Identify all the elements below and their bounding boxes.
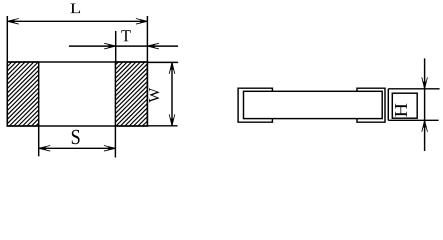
label H [395,104,407,117]
arrow T right (points left) [147,43,159,49]
left termination hatch lines [7,62,38,126]
arrow W bottom (points down) [169,114,175,126]
arrow L right [136,19,148,25]
dimension S: extension line left [38,126,40,156]
dimension S: extension line right [114,126,116,158]
dimension L: extension line left [6,16,8,62]
chip body outline (side) [244,91,383,118]
dimension H: dimension line [424,58,426,151]
dimension W: bottom extension line [147,125,177,127]
dimension L: dimension line [7,20,147,22]
dimension T: dimension line [69,45,178,47]
right end cap bracket [357,88,385,122]
arrow W top (points up) [169,62,175,74]
dimension H: label frame box [392,93,417,118]
dimension H: vertical connector [387,89,389,121]
left termination outline [7,62,38,126]
label T [121,30,130,41]
right termination outline [115,62,147,126]
arrow S left [39,146,51,152]
dimension T: extension line [115,31,117,62]
dimension S: dimension line [39,147,116,149]
chip body outline [7,62,147,126]
label S [72,130,80,144]
label W [149,88,159,103]
dimension W: top extension line [147,61,178,63]
dimension L: extension line right [146,16,148,62]
right termination hatch lines [115,62,147,126]
arrow T left (points right) [104,43,116,49]
arrow S right [104,146,116,152]
dimension H: top extension line [388,88,439,90]
arrow L left [7,19,18,25]
dimension W: dimension line [171,62,173,125]
label L [70,3,80,13]
arrow H bottom (points up) [422,120,428,132]
arrow H top (points down) [422,77,428,89]
left end cap bracket [238,88,272,122]
dimension H: bottom extension line [388,119,438,121]
